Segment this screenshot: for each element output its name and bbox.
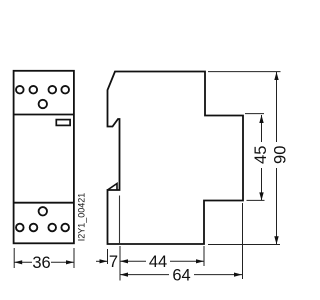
- dimension 36 extension line left: [13, 248, 15, 268]
- dimension 45 arrow down: [259, 192, 263, 200]
- dimension 36 extension line right: [73, 248, 75, 268]
- dimension 64 line left: [120, 274, 169, 276]
- dimension 36 arrow left: [14, 260, 22, 264]
- svg-text:45: 45: [252, 146, 270, 164]
- bottom terminal circle 3: [48, 224, 56, 232]
- extension line x=107.5 (7 left): [107, 249, 109, 264]
- svg-text:64: 64: [172, 266, 190, 284]
- side view clip inner line: [119, 196, 121, 244]
- extension line x=204 (44 right): [203, 246, 205, 266]
- dimension 45 arrow up: [259, 115, 263, 123]
- svg-text:I2Y1_00421: I2Y1_00421: [76, 193, 86, 242]
- bottom terminal circle 1: [16, 224, 24, 232]
- top terminal circle 2: [30, 86, 38, 94]
- dimension 64 line right: [194, 274, 242, 276]
- dimension 44 arrow right: [196, 259, 204, 263]
- dimension 36 arrow right: [66, 260, 74, 264]
- side view lower clip hook: [108, 184, 118, 191]
- extension line bottom (90): [208, 244, 280, 246]
- dimension 36 line left: [14, 261, 32, 263]
- extension line top (90): [208, 71, 281, 73]
- dimension 64 arrow right: [234, 273, 242, 277]
- dimension 64 arrow left: [120, 273, 128, 277]
- extension line x=120 (7 right / 44 left / 64 left): [119, 246, 121, 281]
- extension line 45 bottom: [247, 199, 265, 201]
- front view top divider: [14, 114, 74, 116]
- bottom center circle: [39, 207, 47, 215]
- extension line 45 top: [245, 113, 264, 115]
- top terminal circle 3: [49, 86, 57, 94]
- dimension 44 arrow left: [120, 259, 128, 263]
- dimension 44 line right: [170, 260, 204, 262]
- extension line x=242 (64 right): [242, 203, 244, 279]
- front view outline: [14, 71, 74, 244]
- label window rectangle: [56, 120, 70, 126]
- dimension 7 leader line: [96, 260, 108, 262]
- svg-text:7: 7: [109, 253, 118, 271]
- dimension 44 line left: [120, 260, 146, 262]
- front view bottom divider: [14, 202, 74, 204]
- dimension 90 arrow down: [274, 236, 278, 244]
- top terminal circle 1: [16, 86, 24, 94]
- dimension 90 line upper: [276, 72, 278, 142]
- bottom terminal circle 4: [61, 224, 69, 232]
- side view outline: [108, 72, 244, 245]
- dimension 90 line lower: [276, 168, 278, 244]
- dimension 7 arrow: [100, 259, 108, 263]
- dimension 36 line right: [51, 261, 74, 263]
- dimension 45 line upper: [261, 115, 263, 142]
- dimension 45 line lower: [261, 168, 263, 200]
- svg-text:90: 90: [271, 146, 289, 164]
- bottom terminal circle 2: [30, 224, 38, 232]
- top center circle: [39, 100, 47, 108]
- top terminal circle 4: [61, 86, 69, 94]
- dimension 90 arrow up: [274, 72, 278, 80]
- svg-text:36: 36: [32, 254, 50, 272]
- svg-text:44: 44: [149, 253, 167, 271]
